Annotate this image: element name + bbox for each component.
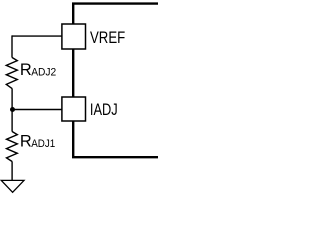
- wire top horizontal from bus to VREF pin: [12, 35, 62, 37]
- wire bus vertical bottom segment: [11, 161, 13, 180]
- node junction dot: [10, 107, 15, 112]
- pin IADJ: [62, 97, 86, 121]
- resistor RADJ1: [7, 132, 18, 162]
- wire branch to IADJ pin: [12, 109, 62, 111]
- svg-text:R: R: [20, 132, 32, 150]
- svg-text:ADJ2: ADJ2: [31, 66, 56, 78]
- svg-text:ADJ1: ADJ1: [31, 138, 55, 150]
- resistor RADJ2: [6, 58, 17, 89]
- pin VREF: [62, 24, 86, 49]
- wire bus vertical middle segment: [11, 89, 13, 132]
- IC block U1: [73, 4, 158, 158]
- wire bus vertical top segment: [11, 35, 13, 57]
- svg-text:VREF: VREF: [90, 29, 125, 47]
- svg-text:R: R: [20, 61, 32, 79]
- ground: [1, 180, 24, 192]
- svg-text:IADJ: IADJ: [90, 101, 118, 119]
